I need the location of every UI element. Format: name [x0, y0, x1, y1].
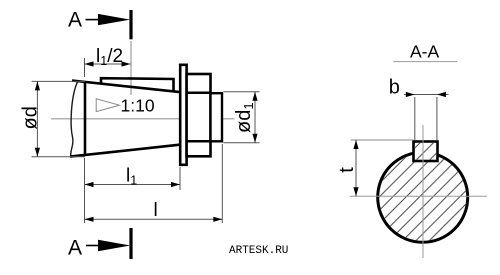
- shaft cone top edge: [72, 81, 181, 93]
- nut facet line lower: [187, 140, 211, 143]
- dimension l1 line: [85, 184, 181, 186]
- svg-text:l: l: [154, 200, 158, 221]
- horizontal centerline of section / t lower extension: [350, 195, 487, 197]
- wire (section plane trace at cut A): [130, 41, 132, 95]
- nut M (hex): [187, 74, 211, 156]
- nut facet line upper: [187, 91, 211, 94]
- dimension l line: [85, 218, 223, 220]
- svg-text:1:10: 1:10: [121, 95, 155, 115]
- dimension ød line: [36, 81, 38, 156]
- dimension l1/2 line: [85, 63, 131, 65]
- dimension l1/2 extension line: [84, 58, 86, 77]
- key cross-section (keyway): [414, 142, 438, 162]
- section mark A (bottom): [129, 228, 132, 259]
- shaft cone bottom edge: [70, 145, 181, 157]
- dimension ød extension lines: [32, 80, 85, 82]
- shaft cross-section circle: [378, 152, 468, 242]
- dimension l1 extension line (right): [179, 167, 181, 190]
- vertical centerline of section: [422, 125, 424, 258]
- dimension l1 extension line (left, shared with l): [84, 158, 86, 223]
- washer: [180, 65, 186, 165]
- threaded shaft tip: [211, 93, 223, 141]
- svg-text:A-A: A-A: [410, 42, 440, 62]
- shaft break line: [71, 81, 78, 157]
- taper symbol: [96, 99, 119, 112]
- hatching inside circle: [379, 154, 466, 241]
- centerline (shaft axis): [51, 118, 235, 120]
- dimension t upper extension line: [351, 139, 414, 141]
- svg-text:ød: ød: [19, 106, 41, 129]
- key on cone: [101, 78, 174, 92]
- svg-text:b: b: [389, 77, 400, 99]
- svg-text:A: A: [68, 9, 82, 32]
- dimension b line with outside arrows: [404, 94, 449, 96]
- dimension t line: [355, 140, 357, 196]
- hatching inside keyway: [415, 143, 436, 160]
- cone start edge (large end of taper): [84, 81, 87, 155]
- dimension ød1 line: [254, 92, 256, 143]
- dimension b extension lines: [414, 97, 416, 140]
- dimension l extension line (right): [221, 144, 223, 223]
- svg-text:t: t: [336, 167, 358, 173]
- svg-text:ARTESK.RU: ARTESK.RU: [229, 245, 288, 257]
- section mark A (top): [129, 10, 132, 39]
- section title underline: [394, 61, 458, 63]
- svg-text:l1/2: l1/2: [96, 46, 123, 68]
- svg-text:A: A: [68, 237, 82, 260]
- dimension ød1 extension lines: [224, 91, 260, 93]
